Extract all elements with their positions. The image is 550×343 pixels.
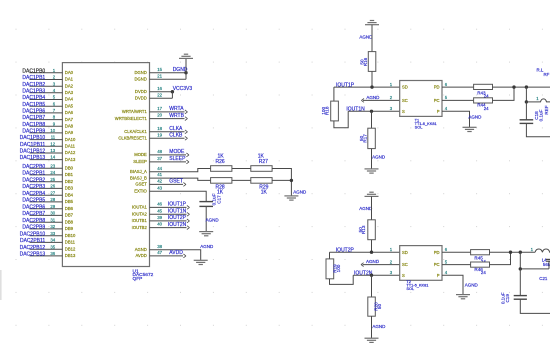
junction T2 mid branch: [519, 267, 522, 270]
svg-text:DAC1PB8: DAC1PB8: [22, 122, 45, 128]
IC U1 DAC5672 chip body: [62, 63, 149, 267]
net text R.L partial top right: [537, 67, 550, 77]
pin 18 CLKA/CLK1 wire + net CLKA port: [150, 131, 185, 133]
designator T1 TT1-6_KK81 SOL: [415, 117, 437, 129]
svg-text:DAC2PB7: DAC2PB7: [22, 211, 45, 217]
svg-text:VCC3V3: VCC3V3: [173, 86, 193, 92]
svg-text:100: 100: [336, 264, 341, 272]
svg-text:QFP: QFP: [133, 276, 143, 282]
resistor R13 50: [358, 220, 375, 240]
svg-text:42: 42: [157, 179, 162, 184]
svg-text:DAC1PB7: DAC1PB7: [22, 115, 45, 121]
svg-text:BIASJ_B: BIASJ_B: [130, 175, 147, 180]
ground AGND at T2 P: [456, 295, 470, 299]
resistor R27 1K: [251, 153, 272, 171]
svg-text:DAC2PB12: DAC2PB12: [20, 245, 46, 251]
wire AGND to R13: [371, 196, 373, 219]
svg-text:16: 16: [157, 86, 162, 91]
svg-text:DAC1PB12: DAC1PB12: [20, 149, 46, 155]
svg-text:P: P: [437, 273, 440, 278]
svg-text:DAC1PB4: DAC1PB4: [22, 95, 45, 101]
svg-text:11: 11: [51, 135, 56, 140]
svg-text:P: P: [437, 109, 440, 114]
capacitor at right edge: [546, 259, 550, 261]
pin 40 IOUTB2 wire + net IOUT2N port: [150, 227, 187, 229]
pin 48 MODE wire + net MODE port: [150, 154, 187, 156]
wire R28-R29: [232, 179, 251, 181]
svg-text:DA5: DA5: [65, 103, 74, 108]
svg-text:DAC2PB6: DAC2PB6: [22, 204, 45, 210]
pin 4 DA3 wire + net DAC1PB3: [30, 92, 63, 94]
wire R27 output to ground: [272, 169, 291, 196]
wire down to C19: [519, 269, 521, 296]
ground AGND bias: [284, 196, 298, 200]
junction T1 out B: [525, 85, 528, 88]
pin 36 DB13 wire + net DAC2PB13: [30, 255, 63, 257]
svg-text:DGND: DGND: [134, 77, 146, 82]
junction VCC3V3: [171, 90, 174, 93]
pin 21 DGND wire: [150, 78, 187, 80]
svg-text:0.1uF: 0.1uF: [538, 109, 543, 121]
junction T1 out A: [512, 85, 515, 88]
svg-text:S: S: [402, 273, 405, 278]
svg-text:DA4: DA4: [65, 97, 74, 102]
svg-text:DB1: DB1: [65, 172, 74, 177]
svg-text:DAC2PB8: DAC2PB8: [22, 218, 45, 224]
svg-text:DB4: DB4: [65, 192, 74, 197]
wire T2 PD to R45: [442, 251, 471, 253]
svg-text:DA7: DA7: [65, 117, 74, 122]
svg-text:DAC1PB9: DAC1PB9: [22, 129, 45, 135]
svg-text:R18: R18: [324, 106, 329, 115]
svg-text:IOUT2P: IOUT2P: [168, 215, 187, 221]
svg-text:37: 37: [157, 156, 162, 161]
svg-text:DAC2PB5: DAC2PB5: [22, 198, 45, 204]
svg-text:BIASJ_A: BIASJ_A: [130, 169, 147, 174]
ground AGND at pin 38: [194, 260, 208, 264]
svg-text:26: 26: [50, 184, 55, 189]
junction lower branch: [525, 100, 528, 103]
svg-text:DAC2PB0: DAC2PB0: [22, 164, 45, 170]
svg-text:48: 48: [157, 149, 162, 154]
junction on DGND net: [184, 71, 187, 74]
svg-text:PC: PC: [434, 98, 440, 103]
svg-text:DAC2PB9: DAC2PB9: [22, 225, 45, 231]
wire R20 to ground: [371, 316, 373, 338]
resistor R19 100: [326, 259, 341, 279]
capacitor C19 0.1uF: [514, 296, 527, 300]
svg-text:DB0: DB0: [65, 165, 74, 170]
svg-text:18: 18: [157, 126, 162, 131]
svg-text:C17: C17: [216, 195, 221, 204]
svg-text:AVDD: AVDD: [169, 250, 183, 256]
pin 26 DB3 wire + net DAC2PB3: [30, 187, 63, 189]
pin 14 DA13 wire + net DAC1PB13: [30, 159, 63, 161]
svg-text:SC: SC: [402, 98, 408, 103]
svg-text:DB6: DB6: [65, 206, 74, 211]
wire T2 PC to R46: [442, 264, 471, 266]
svg-text:DAC2PB11: DAC2PB11: [20, 238, 45, 244]
junction IOUT2N/R20: [370, 274, 373, 277]
pin 27 DB4 wire + net DAC2PB4: [30, 194, 63, 196]
svg-text:DB9: DB9: [65, 226, 74, 231]
pin 31 DB8 wire + net DAC2PB8: [30, 221, 63, 223]
pin 2 DA1 wire + net DAC1PB1: [30, 79, 63, 81]
svg-text:24: 24: [50, 170, 55, 175]
svg-text:R16: R16: [363, 57, 368, 66]
pin 9 DA8 wire + net DAC1PB8: [30, 125, 63, 127]
svg-text:REF: REF: [544, 105, 549, 114]
svg-text:SLEEP: SLEEP: [133, 159, 147, 164]
wire R16 to IOUT1P: [371, 71, 373, 87]
wire AGND to R16: [371, 25, 373, 52]
svg-text:44: 44: [157, 166, 162, 171]
wire IOUT1N down to R17: [371, 111, 373, 128]
svg-text:DB3: DB3: [65, 186, 74, 191]
pin 13 DA12 wire + net DAC1PB12: [30, 152, 63, 154]
resistor R44 25: [474, 98, 493, 111]
T1 pin names and numbers: [390, 82, 448, 114]
label C19 0.1uF vertical: [501, 292, 510, 304]
svg-text:AGND: AGND: [372, 155, 386, 160]
svg-text:DAC1PB13: DAC1PB13: [20, 155, 46, 161]
wire VCC3V3 vertical: [171, 92, 173, 99]
resistor R46 25: [471, 262, 490, 275]
svg-text:AGND: AGND: [366, 259, 380, 264]
designator T2 TT1-6_KK81 SOL: [406, 279, 428, 291]
svg-text:DB11: DB11: [65, 240, 76, 245]
pin 15 DGND wire + net DGND: [150, 72, 187, 74]
svg-text:35: 35: [50, 244, 55, 249]
svg-text:DA6: DA6: [65, 110, 74, 115]
svg-text:15: 15: [157, 67, 162, 72]
svg-text:SOL: SOL: [415, 125, 424, 130]
ground AGND below R20: [365, 338, 379, 342]
svg-text:13: 13: [50, 148, 55, 153]
wire R26-R27: [232, 168, 251, 170]
svg-text:36: 36: [50, 251, 55, 256]
junction T2 out A: [509, 251, 512, 254]
wire C19 to bottom rail: [520, 299, 550, 313]
svg-text:38: 38: [157, 244, 162, 249]
pin 30 DB7 wire + net DAC2PB7: [30, 214, 63, 216]
pin 1 DA0 wire + net DAC1PB0: [30, 72, 63, 74]
svg-text:AGND: AGND: [200, 244, 214, 249]
svg-text:PC: PC: [434, 262, 440, 267]
svg-text:43: 43: [157, 185, 162, 190]
ground AGND at C17: [199, 232, 213, 236]
pin 33 DB10 wire + net DAC2PB10: [30, 235, 63, 237]
pin 22 DVDD wire: [150, 97, 173, 99]
resistor R17 50: [359, 128, 375, 148]
svg-text:DB7: DB7: [65, 213, 74, 218]
svg-text:IOUT2N: IOUT2N: [168, 222, 187, 228]
junction IOUT1P/R16: [370, 85, 373, 88]
svg-text:DAC1PB0: DAC1PB0: [22, 68, 45, 74]
wire R18 to IOUT1N: [334, 111, 348, 127]
wire C18 to bottom rail: [526, 123, 550, 136]
pin 43 EXTIO wire to C17: [150, 191, 207, 201]
svg-text:DA13: DA13: [65, 157, 76, 162]
svg-text:AGND: AGND: [465, 283, 479, 288]
svg-text:47: 47: [157, 250, 162, 255]
svg-text:AGND: AGND: [293, 190, 307, 195]
resistor R43 25: [474, 84, 493, 98]
svg-text:DVDD: DVDD: [135, 89, 147, 94]
svg-text:MODE: MODE: [134, 152, 147, 157]
resistor R45 25: [471, 250, 490, 264]
wire R19 to IOUT2N: [330, 275, 354, 284]
svg-text:DB8: DB8: [65, 219, 74, 224]
port AGND to T2 pin 2: [361, 263, 364, 267]
svg-text:30: 30: [50, 211, 55, 216]
pin 19 CLKB/RESET1 wire + net CLKB port: [150, 137, 185, 139]
svg-text:33: 33: [50, 231, 55, 236]
svg-text:DAC1PB5: DAC1PB5: [22, 102, 45, 108]
resistor R20 50: [368, 297, 382, 316]
resistor R29 1K: [251, 178, 272, 196]
pin 3 DA2 wire + net DAC1PB2: [30, 85, 63, 87]
svg-text:31: 31: [50, 217, 55, 222]
pin 37 SLEEP wire + net SLEEP port: [150, 161, 187, 163]
label C18 0.1uF vertical: [534, 105, 549, 121]
svg-text:EXTIO: EXTIO: [134, 188, 147, 193]
svg-text:41: 41: [157, 172, 162, 177]
svg-text:AGND: AGND: [135, 247, 147, 252]
svg-text:24: 24: [484, 106, 489, 111]
svg-text:SLEEP: SLEEP: [169, 156, 186, 162]
pin 16 DVDD wire + net VCC3V3: [150, 91, 173, 93]
svg-text:DB5: DB5: [65, 199, 74, 204]
svg-text:MODE: MODE: [169, 149, 185, 155]
svg-text:DAC1PB3: DAC1PB3: [22, 88, 45, 94]
wire T1 PC to R44: [442, 99, 474, 101]
svg-text:PD: PD: [434, 250, 440, 255]
wire IOUT1P: [334, 86, 400, 88]
svg-text:DAC1PB10: DAC1PB10: [20, 135, 46, 141]
svg-text:IOUT1P: IOUT1P: [168, 202, 187, 208]
junction IOUT1N/R17: [370, 110, 373, 113]
wire AGND to T1 SC: [363, 99, 400, 101]
wire right edge vertical to L4: [548, 261, 550, 269]
svg-text:CLKB/RESET1: CLKB/RESET1: [118, 136, 147, 141]
svg-text:DAC2PB4: DAC2PB4: [22, 191, 45, 197]
svg-text:AGND: AGND: [468, 114, 482, 119]
svg-text:AVDD: AVDD: [135, 253, 146, 258]
pin 25 DB2 wire + net DAC2PB2: [30, 181, 63, 183]
svg-text:R26: R26: [216, 159, 225, 165]
svg-text:AGND: AGND: [359, 206, 373, 211]
svg-text:50: 50: [377, 304, 382, 310]
svg-text:23: 23: [50, 163, 55, 168]
svg-text:AGND: AGND: [372, 324, 386, 329]
svg-text:R17: R17: [362, 134, 367, 143]
svg-text:AGND: AGND: [206, 217, 220, 222]
svg-text:DAC2PB10: DAC2PB10: [20, 231, 46, 237]
pin 10 DA9 wire + net DAC1PB9: [30, 132, 63, 134]
svg-text:DA1: DA1: [65, 77, 74, 82]
svg-text:GSET: GSET: [169, 179, 183, 185]
pin 11 DA10 wire + net DAC1PB10: [30, 139, 63, 141]
pin 23 DB0 wire + net DAC2PB0: [30, 167, 63, 169]
svg-text:28: 28: [50, 197, 55, 202]
svg-text:DAC1PB6: DAC1PB6: [22, 109, 45, 115]
svg-text:29: 29: [50, 204, 55, 209]
svg-text:AGND: AGND: [359, 34, 373, 39]
pin 7 DA6 wire + net DAC1PB6: [30, 112, 63, 114]
pin 24 DB1 wire + net DAC2PB1: [30, 174, 63, 176]
wire R45 output right: [490, 251, 536, 253]
svg-text:WRTB/SELECT1: WRTB/SELECT1: [115, 116, 148, 121]
pin 28 DB5 wire + net DAC2PB5: [30, 201, 63, 203]
pin 32 DB9 wire + net DAC2PB9: [30, 228, 63, 230]
svg-text:DA2: DA2: [65, 83, 74, 88]
svg-text:C21: C21: [539, 276, 548, 281]
pin 34 DB11 wire + net DAC2PB11: [30, 241, 63, 243]
svg-text:IOUTA2: IOUTA2: [132, 212, 147, 217]
ground AGND below R17: [365, 169, 379, 173]
svg-text:24: 24: [481, 270, 486, 275]
pin 47 AVDD wire + net AVDD port: [150, 255, 184, 257]
ground AGND at T1 P: [463, 127, 477, 131]
svg-text:C19: C19: [505, 294, 510, 303]
svg-text:SD: SD: [402, 250, 408, 255]
svg-text:WRTA/WRT1: WRTA/WRT1: [122, 109, 148, 114]
svg-text:DA10: DA10: [65, 137, 76, 142]
wire R17 to ground: [371, 149, 373, 169]
wire IOUT2P down to R19: [329, 252, 331, 259]
transformer T2 TT1-6_KK81 body: [400, 246, 442, 281]
svg-text:CLKA/CLK1: CLKA/CLK1: [124, 129, 147, 134]
pin 41 BIASJ_B wire to R28: [150, 178, 211, 180]
wire down to lower branch: [525, 87, 527, 102]
svg-text:CLKB: CLKB: [169, 133, 183, 139]
pin 20 WRTB/SELECT1 wire + net WRTB port: [150, 118, 185, 120]
resistor R26 1K: [211, 153, 232, 171]
svg-text:1K: 1K: [217, 189, 224, 195]
label L4 56N: [542, 257, 550, 267]
ground AGND top T2: [365, 192, 379, 196]
svg-text:WRTB: WRTB: [169, 113, 184, 119]
svg-text:DB10: DB10: [65, 233, 76, 238]
svg-text:AGND: AGND: [366, 95, 380, 100]
pin 17 WRTA/WRT1 wire + net WRTA port: [150, 111, 185, 113]
pin 38 AGND wire: [150, 250, 201, 260]
wire T2 mid branch: [520, 252, 549, 269]
svg-text:45: 45: [157, 208, 162, 213]
svg-text:DAC2PB3: DAC2PB3: [22, 184, 45, 190]
svg-text:CLKA: CLKA: [169, 126, 183, 132]
svg-text:DAC1PB2: DAC1PB2: [22, 82, 45, 88]
pin 6 DA5 wire + net DAC1PB5: [30, 105, 63, 107]
inductor L4 humps: [535, 249, 550, 252]
wire R44 output up to R43 row: [493, 87, 515, 100]
resistor R16 50: [360, 52, 376, 72]
junction R29/ground: [290, 179, 293, 182]
svg-text:12: 12: [50, 141, 55, 146]
svg-text:R27: R27: [259, 159, 268, 165]
pin 5 DA4 wire + net DAC1PB4: [30, 99, 63, 101]
svg-text:S: S: [402, 109, 405, 114]
capacitor C17 0.1uF: [199, 202, 213, 207]
pin 39 IOUTB1 wire + net IOUT2P port: [150, 220, 187, 222]
ground DGND: [179, 54, 193, 58]
svg-text:DA11: DA11: [65, 144, 76, 149]
svg-text:39: 39: [157, 215, 162, 220]
svg-text:46: 46: [157, 202, 162, 207]
svg-text:DA0: DA0: [65, 70, 74, 75]
svg-text:DAC1PB1: DAC1PB1: [22, 75, 45, 81]
resistor R18 100: [321, 101, 338, 121]
svg-text:25: 25: [50, 177, 55, 182]
svg-text:IOUTA1: IOUTA1: [132, 205, 147, 210]
pin 35 DB12 wire + net DAC2PB12: [30, 248, 63, 250]
svg-text:IOUTB1: IOUTB1: [132, 218, 148, 223]
wire IOUT2N down to R20: [371, 275, 373, 297]
svg-text:DB12: DB12: [65, 246, 76, 251]
capacitor C18 0.1uF: [520, 120, 534, 124]
junction T2 out B: [519, 251, 522, 254]
wire R29 output: [272, 179, 291, 181]
svg-text:PD: PD: [434, 85, 440, 90]
svg-text:22: 22: [157, 92, 162, 97]
wire IOUT2P: [330, 251, 400, 253]
svg-text:DA3: DA3: [65, 90, 74, 95]
wire T1 PD to R43: [442, 86, 474, 88]
svg-text:34: 34: [50, 238, 55, 243]
svg-text:DB13: DB13: [65, 253, 76, 258]
svg-text:IOUT1N: IOUT1N: [168, 209, 187, 215]
wire R13 to IOUT2P: [371, 240, 373, 253]
wire lower branch with inductor to edge: [526, 101, 538, 103]
svg-text:1K: 1K: [261, 189, 268, 195]
svg-text:DAC2PB13: DAC2PB13: [20, 252, 46, 258]
pin 12 DA11 wire + net DAC1PB11: [30, 145, 63, 147]
svg-text:DA9: DA9: [65, 130, 74, 135]
svg-text:40: 40: [157, 222, 162, 227]
svg-text:R13: R13: [361, 225, 366, 234]
svg-text:IOUTB2: IOUTB2: [132, 225, 148, 230]
svg-text:DA8: DA8: [65, 123, 74, 128]
wire down to C18: [525, 102, 527, 120]
inductor hump T1: [539, 99, 550, 102]
pin 8 DA7 wire + net DAC1PB7: [30, 119, 63, 121]
wire DGND vertical: [185, 58, 187, 79]
junction IOUT2P/R13: [370, 251, 373, 254]
pin 29 DB6 wire + net DAC2PB6: [30, 208, 63, 210]
svg-text:10: 10: [50, 128, 55, 133]
svg-text:DAC2PB2: DAC2PB2: [22, 177, 45, 183]
pin 42 GSET wire + net GSET port: [150, 183, 184, 185]
svg-text:19: 19: [157, 132, 162, 137]
svg-text:SOL: SOL: [406, 286, 415, 291]
svg-text:17: 17: [157, 106, 162, 111]
svg-text:14: 14: [50, 155, 55, 160]
svg-text:DVDD: DVDD: [135, 95, 147, 100]
pin 44 BIASJ_A wire to R26: [150, 169, 211, 172]
svg-text:GSET: GSET: [135, 182, 147, 187]
svg-text:WRTA: WRTA: [169, 106, 184, 112]
svg-text:DAC1PB11: DAC1PB11: [20, 142, 45, 148]
svg-text:20: 20: [157, 113, 162, 118]
label C17 0.1uF: [211, 193, 221, 205]
ground AGND top T1: [365, 21, 379, 25]
port AGND to T1 pin 2: [361, 99, 364, 103]
wire T1 P to ground: [442, 111, 470, 127]
svg-text:SD: SD: [402, 85, 408, 90]
wire IOUT2N: [353, 274, 400, 276]
svg-text:21: 21: [157, 73, 162, 78]
